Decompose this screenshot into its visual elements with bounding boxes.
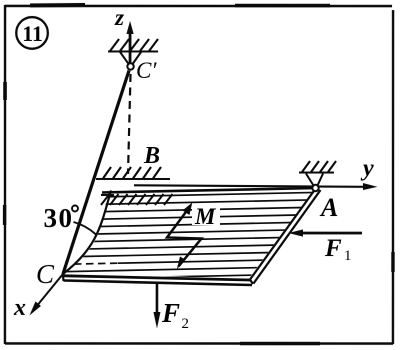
svg-text:y: y [360,156,374,182]
svg-text:x: x [13,295,26,321]
svg-text:C: C [36,259,55,289]
svg-text:M: M [194,204,217,229]
svg-text:B: B [143,143,160,169]
svg-text:2: 2 [181,316,189,332]
svg-text:30: 30 [43,203,73,233]
svg-text:11: 11 [22,21,43,46]
svg-text:F: F [324,235,342,262]
svg-text:z: z [114,5,124,30]
svg-text:1: 1 [344,248,352,264]
svg-text:F: F [161,298,180,328]
svg-text:C′: C′ [136,58,157,83]
svg-text:A: A [319,193,338,222]
